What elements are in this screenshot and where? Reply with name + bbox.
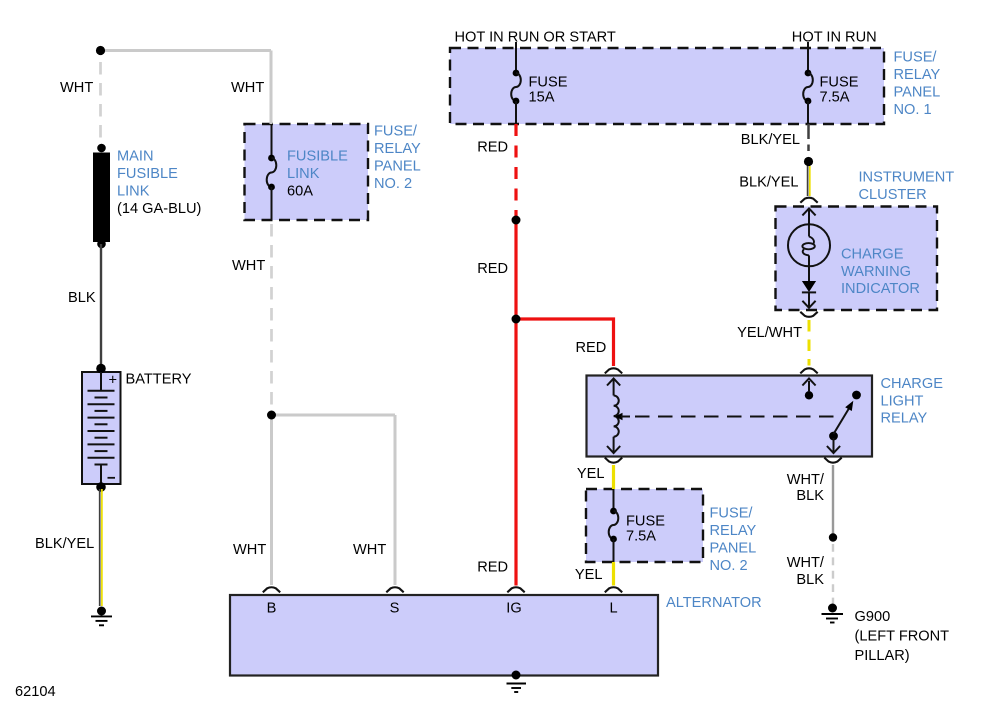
wire WHT junction to alternator B xyxy=(270,415,273,585)
label FUSIBLE LINK 60A xyxy=(287,149,348,200)
fuse 15A component xyxy=(511,48,521,124)
wire RED solid middle xyxy=(514,220,517,319)
fuse/relay panel no.1 box xyxy=(450,48,884,124)
charge light relay box xyxy=(587,376,873,457)
svg-text:BATTERY: BATTERY xyxy=(126,372,192,388)
wire BLK/YEL battery to ground xyxy=(100,489,102,606)
svg-text:LIGHT: LIGHT xyxy=(881,394,924,410)
svg-text:G900: G900 xyxy=(855,609,891,625)
label CHARGE WARNING INDICATOR xyxy=(841,247,920,298)
svg-text:FUSE: FUSE xyxy=(626,514,665,530)
node RED splice 1 xyxy=(512,216,521,225)
connector at relay bottom left xyxy=(605,458,622,463)
svg-text:WHT: WHT xyxy=(60,80,93,96)
svg-text:NO. 1: NO. 1 xyxy=(894,102,932,118)
wire YEL/WHT dashed cluster to relay xyxy=(808,320,811,366)
relay switch xyxy=(827,391,861,453)
battery box xyxy=(82,372,121,484)
svg-text:WARNING: WARNING xyxy=(841,264,911,280)
relay contact common arrow up xyxy=(802,379,815,400)
wire RED dashed from fuse 15A xyxy=(514,124,517,217)
stub above fuse 15A xyxy=(515,42,517,50)
node BLK/YEL splice xyxy=(804,157,813,166)
svg-text:B: B xyxy=(267,601,277,617)
svg-text:RED: RED xyxy=(477,261,508,277)
svg-text:62104: 62104 xyxy=(15,684,56,700)
instrument cluster box xyxy=(776,207,938,311)
label FUSE 15A xyxy=(529,75,568,106)
ground G900 xyxy=(822,604,844,623)
svg-text:(14 GA-BLU): (14 GA-BLU) xyxy=(117,201,201,217)
fuse 7.5A component (panel no.1) xyxy=(803,48,813,124)
wire YEL relay to fuse panel xyxy=(612,465,615,489)
ground below battery xyxy=(91,607,112,626)
svg-text:(LEFT FRONT: (LEFT FRONT xyxy=(855,629,950,645)
svg-text:7.5A: 7.5A xyxy=(626,529,656,545)
wire WHT/BLK dashed to G900 xyxy=(832,544,834,604)
svg-text:ALTERNATOR: ALTERNATOR xyxy=(666,595,762,611)
svg-text:WHT/: WHT/ xyxy=(787,555,825,571)
svg-text:BLK/YEL: BLK/YEL xyxy=(739,174,798,190)
wire RED branch to charge light relay xyxy=(516,319,614,366)
label FUSE 7.5A (panel no.2) xyxy=(626,514,665,545)
svg-text:BLK/YEL: BLK/YEL xyxy=(35,536,94,552)
wire BLK/YEL to instrument cluster xyxy=(808,166,810,196)
svg-text:PANEL: PANEL xyxy=(374,159,421,175)
svg-text:LINK: LINK xyxy=(117,184,150,200)
label MAIN FUSIBLE LINK (14 GA-BLU) xyxy=(117,149,201,218)
relay dashed actuation line with arrow xyxy=(615,413,836,420)
node WHT/BLK splice xyxy=(829,533,837,541)
svg-text:RELAY: RELAY xyxy=(710,523,757,539)
svg-text:CLUSTER: CLUSTER xyxy=(859,187,927,203)
svg-text:WHT: WHT xyxy=(353,542,386,558)
svg-text:FUSE: FUSE xyxy=(820,75,859,91)
svg-text:PANEL: PANEL xyxy=(894,85,941,101)
wire BLK fusible link to battery xyxy=(100,244,102,369)
wire WHT dashed down to main fusible link xyxy=(99,62,102,148)
label FUSE 7.5A (panel no.1) xyxy=(820,75,859,106)
svg-text:HOT IN RUN OR START: HOT IN RUN OR START xyxy=(455,30,616,46)
fusible link 60A component xyxy=(267,124,277,220)
label FUSE/RELAY PANEL NO. 2 (lower) xyxy=(710,506,757,575)
svg-text:FUSE/: FUSE/ xyxy=(710,506,754,522)
svg-text:RED: RED xyxy=(477,560,508,576)
battery component xyxy=(88,364,118,492)
wire RED down to alternator IG xyxy=(514,319,517,586)
label G900 (LEFT FRONT PILLAR) xyxy=(855,609,950,664)
svg-text:RED: RED xyxy=(576,340,607,356)
label WHT/BLK upper xyxy=(787,472,825,504)
wire YEL fuse panel to alternator L xyxy=(612,562,615,586)
svg-text:WHT: WHT xyxy=(232,258,265,274)
connector at instrument cluster top xyxy=(800,198,817,203)
svg-text:RELAY: RELAY xyxy=(894,67,941,83)
svg-text:PILLAR): PILLAR) xyxy=(855,648,910,664)
connector at relay top left xyxy=(605,368,622,373)
svg-text:L: L xyxy=(609,601,617,617)
svg-text:FUSIBLE: FUSIBLE xyxy=(287,149,348,165)
alternator box xyxy=(230,595,658,676)
stub above fuse 7.5A panel1 xyxy=(807,42,809,50)
charge warning indicator lamp xyxy=(788,208,830,307)
svg-text:HOT IN RUN: HOT IN RUN xyxy=(792,30,877,46)
wire WHT solid horizontal top-left xyxy=(101,49,272,52)
label FUSE/RELAY PANEL NO. 2 (upper) xyxy=(374,124,421,193)
wire WHT horizontal branch xyxy=(272,414,396,417)
label INSTRUMENT CLUSTER xyxy=(859,170,955,204)
svg-text:S: S xyxy=(390,601,400,617)
svg-text:BLK/YEL: BLK/YEL xyxy=(741,132,800,148)
svg-text:15A: 15A xyxy=(529,90,555,106)
main fusible link component xyxy=(93,144,110,249)
svg-text:NO. 2: NO. 2 xyxy=(710,558,748,574)
wire BLK/YEL dashed below fuse 7.5A xyxy=(807,124,810,151)
svg-text:NO. 2: NO. 2 xyxy=(374,176,412,192)
svg-text:BLK: BLK xyxy=(796,488,824,504)
svg-text:CHARGE: CHARGE xyxy=(841,247,904,263)
svg-text:FUSE/: FUSE/ xyxy=(374,124,418,140)
connector at alternator B xyxy=(263,587,280,592)
fuse/relay panel no.2 box (upper, fusible link 60A) xyxy=(245,124,369,220)
svg-text:FUSE: FUSE xyxy=(529,75,568,91)
wire WHT branch to alternator S xyxy=(394,415,397,585)
node RED splice 2 xyxy=(512,315,521,324)
svg-text:YEL/WHT: YEL/WHT xyxy=(737,325,802,341)
svg-text:YEL: YEL xyxy=(575,567,603,583)
svg-text:INSTRUMENT: INSTRUMENT xyxy=(859,170,955,186)
fuse 7.5A component (panel no.2) xyxy=(609,489,619,562)
svg-text:60A: 60A xyxy=(287,184,313,200)
fuse/relay panel no.2 box (lower, fuse 7.5A) xyxy=(586,489,703,562)
svg-text:+: + xyxy=(109,373,118,389)
svg-text:IG: IG xyxy=(506,601,521,617)
wire WHT/BLK relay to splice xyxy=(832,465,834,534)
svg-text:RELAY: RELAY xyxy=(374,141,421,157)
ground below alternator xyxy=(507,671,527,693)
wire WHT solid vertical into fuse/relay panel no.2 xyxy=(270,51,273,125)
connector at instrument cluster bottom xyxy=(800,312,817,317)
connector at alternator S xyxy=(386,587,403,592)
label WHT/BLK lower xyxy=(787,555,825,588)
svg-text:FUSIBLE: FUSIBLE xyxy=(117,166,178,182)
svg-text:BLK: BLK xyxy=(68,290,96,306)
svg-text:INDICATOR: INDICATOR xyxy=(841,281,920,297)
svg-text:RELAY: RELAY xyxy=(881,411,928,427)
svg-text:WHT: WHT xyxy=(233,542,266,558)
relay coil with arrows xyxy=(607,379,620,454)
svg-text:WHT/: WHT/ xyxy=(787,472,825,488)
svg-text:7.5A: 7.5A xyxy=(820,90,850,106)
svg-text:MAIN: MAIN xyxy=(117,149,153,165)
svg-text:FUSE/: FUSE/ xyxy=(894,50,938,66)
connector at relay top right xyxy=(800,368,817,373)
svg-text:PANEL: PANEL xyxy=(710,541,757,557)
svg-text:LINK: LINK xyxy=(287,166,320,182)
connector at alternator IG xyxy=(507,587,524,592)
wire WHT dashed panel no.2 to junction xyxy=(270,224,273,415)
svg-text:WHT: WHT xyxy=(231,80,264,96)
svg-text:RED: RED xyxy=(477,139,508,155)
connector at alternator L xyxy=(605,587,622,592)
svg-text:BLK: BLK xyxy=(796,572,824,588)
label CHARGE LIGHT RELAY xyxy=(881,376,944,427)
node junction WHT splice xyxy=(267,411,276,420)
svg-text:CHARGE: CHARGE xyxy=(881,376,944,392)
node junction top-left xyxy=(96,46,105,55)
svg-text:YEL: YEL xyxy=(577,466,605,482)
label FUSE/RELAY PANEL NO. 1 xyxy=(894,50,941,119)
connector at relay bottom right xyxy=(824,458,841,463)
